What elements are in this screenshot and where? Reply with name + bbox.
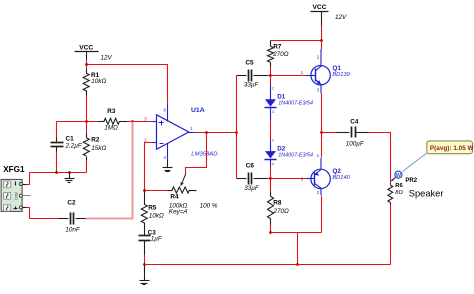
wire VCC to top rail xyxy=(321,26,323,41)
label Q1 xyxy=(332,65,341,72)
svg-text:Q1: Q1 xyxy=(332,65,341,72)
capacitor C5 xyxy=(237,70,268,82)
label R3 xyxy=(107,108,116,115)
wire mid rail to bottom rail xyxy=(297,233,299,265)
node output-feedback junction xyxy=(205,131,208,134)
svg-text:12V: 12V xyxy=(335,14,347,21)
svg-text:Speaker: Speaker xyxy=(409,189,444,199)
svg-text:12V: 12V xyxy=(101,55,113,62)
label U1A xyxy=(191,107,205,114)
diode D1 xyxy=(265,85,277,120)
svg-text:8: 8 xyxy=(164,108,167,113)
wire R3 to op-amp plus input xyxy=(127,121,153,123)
value label 12V (left supply) xyxy=(101,55,113,62)
value R3 1MΩ xyxy=(104,125,118,132)
svg-text:R3: R3 xyxy=(107,108,116,115)
svg-text:1MΩ: 1MΩ xyxy=(104,125,118,132)
node Q1 base junction xyxy=(269,74,272,77)
op-amp U1A body xyxy=(157,115,189,150)
svg-text:D2: D2 xyxy=(277,145,285,152)
resistor R3 xyxy=(99,118,127,124)
value U1A LM358AD xyxy=(191,152,218,158)
node output-coupling junction xyxy=(235,131,238,134)
capacitor C4 xyxy=(337,127,369,138)
wire R4 wiper to output xyxy=(186,133,207,174)
svg-text:2: 2 xyxy=(317,190,320,195)
svg-text:XFG1: XFG1 xyxy=(3,165,25,174)
wire C6 to Q2 base node xyxy=(268,178,271,180)
svg-text:BD139: BD139 xyxy=(332,72,350,78)
node C1 ground junction xyxy=(55,171,58,174)
label D1 xyxy=(277,93,285,100)
svg-text:A: A xyxy=(272,162,275,166)
callout P(avg): 1.05 W xyxy=(427,141,474,154)
wire top rail xyxy=(271,40,322,42)
wire supply rail to op-amp pin8 xyxy=(87,65,168,105)
capacitor C6 xyxy=(237,173,268,185)
svg-text:C1: C1 xyxy=(66,135,75,142)
label R4 xyxy=(170,193,179,200)
wire bottom rail xyxy=(145,264,391,266)
wire R6 to bottom rail xyxy=(390,205,392,265)
pin XFG1 terminal 1 xyxy=(19,183,26,186)
wire Q1 collector to VCC xyxy=(321,41,323,50)
label XFG1 xyxy=(3,165,25,174)
wire C1 top lead xyxy=(56,122,58,142)
wire R7 bottom lead xyxy=(270,63,272,76)
wire D1 anode lead xyxy=(270,76,272,85)
ground (main) xyxy=(140,265,150,285)
node supply-left junction xyxy=(85,63,88,66)
node output stage junction xyxy=(320,131,323,134)
svg-text:R2: R2 xyxy=(91,136,100,143)
wire R2 bottom lead xyxy=(86,157,88,173)
svg-text:C2: C2 xyxy=(67,200,76,207)
wire bias ground line xyxy=(30,172,87,174)
svg-text:C5: C5 xyxy=(245,60,254,67)
value Q2 BD140 xyxy=(332,175,350,181)
value R4 100kΩ xyxy=(169,202,188,209)
svg-text:1µF: 1µF xyxy=(151,236,163,243)
pin XFG1 terminal 2 xyxy=(19,194,30,197)
wire D2 to Q2 base node xyxy=(270,167,272,179)
label C5 xyxy=(245,60,254,67)
svg-text:270Ω: 270Ω xyxy=(273,208,290,215)
wiper arrow R4 xyxy=(181,174,186,187)
function generator XFG1 body xyxy=(1,179,22,211)
wire C5 to Q1 base node xyxy=(268,75,271,77)
wire coupling column C5-C6 xyxy=(236,76,238,179)
value C1 2.2µF xyxy=(65,143,83,150)
svg-text:R6: R6 xyxy=(395,183,403,189)
svg-text:1N4007-E3/54: 1N4007-E3/54 xyxy=(278,100,313,106)
svg-text:P(avg): 1.05 W: P(avg): 1.05 W xyxy=(430,145,474,152)
svg-text:C6: C6 xyxy=(246,163,255,170)
probe PR2 xyxy=(395,171,402,179)
svg-text:270Ω: 270Ω xyxy=(272,51,289,58)
pin 2 (op-amp -IN) xyxy=(144,137,156,142)
wire output node to Q2 emitter xyxy=(321,133,323,158)
svg-text:VCC: VCC xyxy=(79,44,93,51)
value C2 10nF xyxy=(65,227,81,234)
node Q2 base junction xyxy=(269,177,272,180)
svg-text:2.2µF: 2.2µF xyxy=(65,143,83,150)
node bottom rail mid junction xyxy=(296,263,299,266)
wire XFG1 minus to ground line xyxy=(27,173,30,185)
svg-text:R7: R7 xyxy=(273,43,282,50)
pin marker COM (XFG1 pin COM) xyxy=(15,192,19,200)
svg-text:1: 1 xyxy=(190,126,193,131)
value Q1 BD139 xyxy=(332,72,350,78)
label Q2 xyxy=(332,168,341,175)
label C6 xyxy=(246,163,255,170)
svg-text:4: 4 xyxy=(164,155,167,160)
svg-text:R8: R8 xyxy=(273,200,282,207)
svg-text:W: W xyxy=(396,173,402,179)
pin 1 (op-amp OUT) xyxy=(189,126,195,133)
wire R2 top lead xyxy=(86,122,88,138)
wire feedback node to R4 xyxy=(145,190,168,192)
svg-text:PR2: PR2 xyxy=(405,178,417,184)
svg-text:2: 2 xyxy=(144,137,147,142)
value C5 33µF xyxy=(244,82,260,89)
svg-text:10kΩ: 10kΩ xyxy=(149,212,164,219)
node top rail junction xyxy=(320,39,323,42)
value D1 1N4007-E3/54 xyxy=(278,100,313,106)
wire mid rail xyxy=(271,232,322,234)
svg-text:8Ω: 8Ω xyxy=(395,190,403,196)
wire D1 to D2 xyxy=(270,120,272,140)
label Speaker xyxy=(409,189,444,199)
node divider junction xyxy=(85,120,88,123)
resistor R7 xyxy=(268,41,274,63)
wire op-amp output line xyxy=(195,132,237,134)
pin 4 (op-amp V-) xyxy=(164,144,168,161)
svg-text:C4: C4 xyxy=(350,118,359,125)
wire Q1 emitter to output node xyxy=(321,94,323,133)
resistor R8 xyxy=(268,179,274,219)
transistor Q1 xyxy=(301,49,331,93)
value R8 270Ω xyxy=(273,208,290,215)
wire C2 to plus input (highlighted) xyxy=(86,122,133,219)
svg-text:1: 1 xyxy=(317,153,320,158)
wire R1 bottom to divider node xyxy=(86,91,88,122)
value R4 100 % xyxy=(200,202,218,209)
svg-text:LM358AD: LM358AD xyxy=(191,152,218,158)
potentiometer R4 xyxy=(168,187,197,193)
wire VCC stem to rail xyxy=(86,60,88,65)
probe PR2 pointer xyxy=(390,178,395,182)
svg-text:10kΩ: 10kΩ xyxy=(91,78,106,85)
resistor R6 (speaker load) xyxy=(388,184,393,205)
label R5 xyxy=(148,204,157,211)
value C4 100µF xyxy=(346,141,365,148)
wire Q1 base xyxy=(271,75,307,77)
svg-text:3: 3 xyxy=(317,88,320,93)
svg-text:33µF: 33µF xyxy=(244,82,260,89)
ground (bias network) xyxy=(65,173,75,183)
label C4 xyxy=(350,118,359,125)
label D2 xyxy=(277,145,285,152)
value C6 33µF xyxy=(244,185,260,192)
svg-text:100µF: 100µF xyxy=(346,141,365,148)
label C2 xyxy=(67,200,76,207)
label C3 xyxy=(148,230,157,237)
svg-text:COM: COM xyxy=(15,192,19,200)
capacitor C2 xyxy=(59,213,86,225)
pin marker minus (XFG1 pin -) xyxy=(15,182,17,186)
node bottom-rail left junction xyxy=(143,263,146,266)
value R2 15kΩ xyxy=(91,145,106,152)
svg-text:3: 3 xyxy=(144,117,147,122)
label R2 xyxy=(91,136,100,143)
svg-text:Key=A: Key=A xyxy=(169,209,188,216)
power VCC symbol (right) xyxy=(311,4,329,26)
node plus-input junction xyxy=(131,120,134,123)
value R7 270Ω xyxy=(272,51,289,58)
svg-text:C: C xyxy=(272,138,275,142)
svg-text:33µF: 33µF xyxy=(244,185,260,192)
resistor R2 xyxy=(83,138,89,156)
label R1 xyxy=(91,72,100,79)
svg-text:U1A: U1A xyxy=(191,107,205,114)
svg-text:1N4007-E3/54: 1N4007-E3/54 xyxy=(278,153,313,159)
value R4 Key=A xyxy=(169,209,188,216)
label R6 xyxy=(395,183,403,189)
svg-text:100 %: 100 % xyxy=(200,202,218,209)
svg-text:Q2: Q2 xyxy=(332,168,341,175)
wire C3 bottom lead xyxy=(144,241,146,265)
node ground stem junction xyxy=(68,171,71,174)
transistor Q2 xyxy=(301,153,331,195)
wire R8 bottom lead xyxy=(270,219,272,233)
wire Q2 base xyxy=(271,178,307,180)
node mid rail left junction xyxy=(269,231,272,234)
value label 12V (right supply) xyxy=(335,14,347,21)
probe PR2 leader line xyxy=(403,153,428,172)
pin 8 (op-amp V+) xyxy=(164,105,168,122)
svg-text:BD140: BD140 xyxy=(332,175,350,181)
svg-text:A: A xyxy=(272,110,275,114)
value C3 1µF xyxy=(151,236,163,243)
label C1 xyxy=(66,135,75,142)
label PR2 xyxy=(405,178,417,184)
pin 3 (op-amp +IN) xyxy=(144,117,156,122)
wire XFG1 plus to C2 xyxy=(27,208,59,219)
pin marker plus (XFG1 pin +) xyxy=(14,207,18,210)
pin XFG1 terminal 3 xyxy=(19,206,26,209)
wire R1 top lead xyxy=(86,65,88,74)
wire minus input to feedback node xyxy=(145,143,153,191)
label R7 xyxy=(273,43,282,50)
resistor R1 xyxy=(83,73,89,91)
label R8 xyxy=(273,200,282,207)
value R1 10kΩ xyxy=(91,78,106,85)
svg-text:R5: R5 xyxy=(148,204,157,211)
wire divider node line xyxy=(57,121,99,123)
ground (op-amp V-) xyxy=(163,161,173,172)
svg-text:R4: R4 xyxy=(170,193,179,200)
wire Q2 collector to mid rail xyxy=(321,196,323,233)
svg-text:VCC: VCC xyxy=(313,4,327,11)
value D2 1N4007-E3/54 xyxy=(278,153,313,159)
diode D2 xyxy=(265,138,277,166)
value R5 10kΩ xyxy=(149,212,164,219)
svg-text:C: C xyxy=(272,86,275,90)
svg-text:2: 2 xyxy=(317,54,320,59)
wire output node to C4 xyxy=(322,132,337,134)
value R6 8Ω xyxy=(395,190,403,196)
capacitor C1 xyxy=(51,143,64,147)
wire C4 to speaker branch xyxy=(369,133,391,184)
capacitor C3 xyxy=(139,223,151,241)
svg-text:15kΩ: 15kΩ xyxy=(91,145,106,152)
wire C1 bottom lead xyxy=(56,147,58,173)
resistor R5 xyxy=(141,191,147,224)
node feedback junction xyxy=(143,189,146,192)
svg-text:10nF: 10nF xyxy=(65,227,81,234)
power VCC symbol (left) xyxy=(75,44,99,59)
svg-text:1: 1 xyxy=(301,70,304,75)
